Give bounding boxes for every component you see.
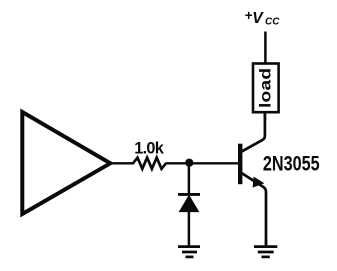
wire: collector up to load box <box>264 113 267 120</box>
wire: emitter down to ground <box>265 240 268 247</box>
wire: junction down to diode <box>188 163 191 194</box>
node: base junction dot <box>185 159 193 167</box>
ground (diode) <box>178 247 200 257</box>
diode D1 (cathode up, base clamp) <box>178 194 200 211</box>
label +Vcc supply <box>245 8 280 28</box>
load box <box>253 64 279 113</box>
transistor Q1: emitter stroke with arrow <box>241 172 267 246</box>
transistor Q1: collector stroke <box>241 113 265 152</box>
label 2N3055 <box>263 153 320 177</box>
label load (rotated) <box>256 68 274 108</box>
wire: +Vcc lead down to load box <box>264 32 267 64</box>
transistor Q1 2N3055 (NPN): base bar <box>238 144 242 185</box>
svg-text:CC: CC <box>265 17 280 28</box>
svg-text:2N3055: 2N3055 <box>263 153 320 177</box>
svg-text:V: V <box>252 10 264 27</box>
wire: gate output to resistor <box>110 162 134 164</box>
svg-text:1.0k: 1.0k <box>134 140 165 158</box>
wire: resistor to transistor base <box>166 162 239 164</box>
resistor R 1.0k <box>133 158 166 169</box>
ground (emitter) <box>254 247 277 257</box>
buffer/driver gate triangle <box>22 112 110 214</box>
svg-text:load: load <box>256 68 274 108</box>
label 1.0k <box>134 140 165 158</box>
wire: diode anode to ground <box>188 211 191 247</box>
